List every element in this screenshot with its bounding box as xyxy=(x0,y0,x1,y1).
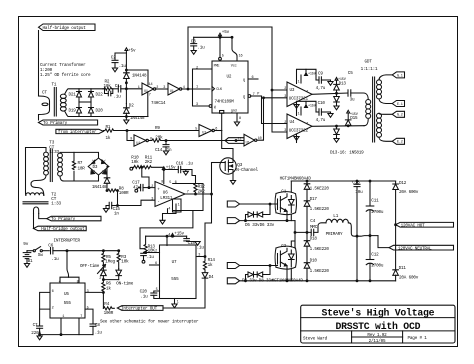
wire E1 to half-bridge midpoint xyxy=(240,220,295,222)
svg-text:CLK: CLK xyxy=(216,88,223,92)
plug E1 (input) xyxy=(227,218,239,224)
C7 220n xyxy=(39,309,41,326)
svg-text:2K2: 2K2 xyxy=(145,160,153,165)
svg-text:3u: 3u xyxy=(350,97,355,102)
gnd pin 8 xyxy=(236,113,238,121)
svg-text:G.2: G.2 xyxy=(397,114,403,118)
svg-text:3: 3 xyxy=(284,129,286,133)
svg-text:1:33: 1:33 xyxy=(49,150,59,155)
capacitor C9 4.7u xyxy=(316,79,319,81)
svg-text:U7: U7 xyxy=(172,260,177,265)
midpoint rail xyxy=(294,221,296,248)
+15v arrow xyxy=(171,234,174,237)
svg-text:GDT: GDT xyxy=(365,60,373,65)
svg-text:G1: G1 xyxy=(281,189,286,194)
zener D5 33v xyxy=(246,215,249,221)
diode D2 1N4148 xyxy=(125,89,127,104)
T3 core xyxy=(49,149,51,182)
wire clamp node to 74HC14 Vcc pin14 xyxy=(126,70,148,85)
inverter U1a 74HC14 xyxy=(142,83,154,95)
svg-text:C5: C5 xyxy=(348,71,353,76)
svg-text:5: 5 xyxy=(169,181,171,185)
svg-text:1: 1 xyxy=(298,113,300,117)
svg-text:+15V: +15V xyxy=(308,73,317,77)
svg-text:Sw: Sw xyxy=(38,253,43,258)
svg-text:100R: 100R xyxy=(119,191,129,196)
tank capacitor C4 MMC xyxy=(295,231,311,233)
svg-text:555: 555 xyxy=(171,277,179,282)
svg-text:3: 3 xyxy=(198,253,200,257)
inverter U1c (pins 5/6) xyxy=(199,125,212,137)
svg-text:1n: 1n xyxy=(114,212,119,217)
svg-text:UCC37322: UCC37322 xyxy=(289,129,309,134)
svg-text:8: 8 xyxy=(161,181,163,185)
svg-text:+5v: +5v xyxy=(222,30,230,35)
net label "120VAC NEUTRAL" xyxy=(389,245,454,250)
svg-text:4: 4 xyxy=(168,208,170,212)
svg-text:1: 1 xyxy=(138,86,140,90)
net label "Half-bridge output" (top) xyxy=(39,24,96,31)
gate driver U4 UCC37322 xyxy=(287,114,312,139)
svg-text:R9: R9 xyxy=(155,126,160,131)
switch SW xyxy=(27,250,33,252)
diode D14 to gnd xyxy=(334,97,340,103)
capacitor C15 1n xyxy=(108,202,110,208)
svg-text:6: 6 xyxy=(52,290,54,294)
diode D19 xyxy=(77,108,82,114)
capacitor C5 3u xyxy=(347,90,349,96)
resistor R2 xyxy=(103,87,113,90)
Q2 collector to midpoint xyxy=(291,241,295,248)
svg-text:C12: C12 xyxy=(371,253,379,258)
capacitor C14 1n xyxy=(165,141,167,145)
svg-text:D12: D12 xyxy=(399,181,407,186)
svg-text:3: 3 xyxy=(151,197,153,201)
wire winding B to plug E2 xyxy=(379,137,392,141)
svg-text:.1u: .1u xyxy=(197,46,205,51)
svg-text:LM311: LM311 xyxy=(160,196,173,201)
capacitor C3 xyxy=(193,37,195,43)
capacitor C6 .1u xyxy=(50,248,52,254)
resistor R9 20k xyxy=(148,139,162,142)
+15v arrow at divider xyxy=(162,167,165,170)
electrolytic C12 2700u xyxy=(369,236,371,260)
svg-text:5: 5 xyxy=(87,307,89,311)
balance loop box xyxy=(173,184,203,211)
wires to net labels xyxy=(39,214,47,219)
svg-text:1.5KE220: 1.5KE220 xyxy=(310,269,330,274)
svg-text:D7 33v D8 33v: D7 33v D8 33v xyxy=(242,279,274,284)
svg-text:P: P xyxy=(257,93,259,97)
TITLEBLOCK xyxy=(301,305,455,343)
svg-text:R1: R1 xyxy=(106,125,111,130)
diode right (up) xyxy=(116,270,122,276)
pin 6 stub xyxy=(150,264,160,266)
T3 right winding xyxy=(58,153,63,158)
svg-text:+15v: +15v xyxy=(174,232,184,237)
svg-text:C11: C11 xyxy=(371,199,379,204)
join wire xyxy=(103,279,118,281)
bottom rail pins 1,7 xyxy=(40,334,93,336)
wire G2 to Q2 gate xyxy=(240,265,278,267)
svg-text:C4: C4 xyxy=(310,219,315,224)
svg-text:D19: D19 xyxy=(69,109,77,114)
net label "To Primary" (upper) xyxy=(38,120,97,125)
bridge output wire down xyxy=(107,167,109,178)
plug G1 xyxy=(392,72,404,78)
svg-text:HGT1M4BN60A4D: HGT1M4BN60A4D xyxy=(280,176,312,181)
Kbar bubble xyxy=(209,105,212,108)
U3 output wire xyxy=(312,93,348,94)
svg-text:1n: 1n xyxy=(167,148,172,153)
U4 gnd pins xyxy=(296,134,298,143)
pin1 ground xyxy=(174,299,176,304)
gate driver U3 UCC37321 xyxy=(287,82,312,107)
svg-text:1k: 1k xyxy=(208,263,213,268)
svg-text:D17: D17 xyxy=(310,197,318,202)
svg-text:2: 2 xyxy=(156,86,158,90)
svg-text:C14: C14 xyxy=(155,148,163,153)
+15v rail over comparator xyxy=(164,169,192,171)
svg-text:+15V: +15V xyxy=(308,105,317,109)
svg-text:PRIMARY: PRIMARY xyxy=(326,232,343,237)
svg-text:4,7u: 4,7u xyxy=(316,118,326,123)
svg-text:.1u: .1u xyxy=(114,94,122,99)
pin3 output wire xyxy=(196,256,205,258)
svg-text:7: 7 xyxy=(306,123,308,127)
comparator U6 LM311 xyxy=(155,182,185,207)
resistor R1 1k xyxy=(103,129,115,132)
wire to pin2 xyxy=(146,252,160,254)
svg-text:U6: U6 xyxy=(163,191,168,196)
diode left (to pin) xyxy=(101,270,107,276)
svg-text:9: 9 xyxy=(130,138,132,142)
wire fork to enable lines xyxy=(225,138,244,144)
svg-text:3: 3 xyxy=(87,290,89,294)
diode D22 xyxy=(89,92,94,98)
wires U2 outputs to driver inputs xyxy=(262,96,288,124)
svg-text:6: 6 xyxy=(175,181,177,185)
svg-text:U1: U1 xyxy=(202,132,206,136)
svg-text:D22: D22 xyxy=(96,93,104,98)
svg-text:D15: D15 xyxy=(350,116,358,121)
svg-text:2: 2 xyxy=(196,66,198,70)
svg-text:3: 3 xyxy=(284,95,286,99)
svg-text:HGT1M4BN60A4D: HGT1M4BN60A4D xyxy=(272,279,304,284)
burden resistor R7 xyxy=(72,152,75,181)
RC loop under R2 xyxy=(105,89,113,94)
plug G2 xyxy=(392,111,404,117)
svg-text:.1u: .1u xyxy=(140,295,148,300)
svg-text:2K2: 2K2 xyxy=(198,190,206,195)
svg-text:To Primary: To Primary xyxy=(51,217,76,222)
svg-text:6: 6 xyxy=(252,76,254,80)
svg-text:C2: C2 xyxy=(111,56,116,61)
wire inv1 to inv2 xyxy=(156,88,168,90)
pin5 / C8 .1u xyxy=(85,309,93,324)
pins 1/4 ground path xyxy=(163,204,177,220)
branch to lower inverter chain xyxy=(127,131,134,141)
rectifier D12 20A 600v xyxy=(393,184,399,190)
wire to D4 column xyxy=(163,279,205,308)
svg-text:7: 7 xyxy=(187,190,189,194)
wire G1 to Q1 gate xyxy=(240,203,278,205)
svg-text:2: 2 xyxy=(284,121,286,125)
svg-text:C3: C3 xyxy=(191,40,196,45)
svg-text:D13: D13 xyxy=(339,81,347,86)
svg-text:C6: C6 xyxy=(48,243,53,248)
svg-text:D18: D18 xyxy=(310,237,318,242)
net label "Interrupter OUT" xyxy=(117,306,163,311)
U4 output wire xyxy=(312,125,364,128)
svg-text:ON-time: ON-time xyxy=(116,282,133,287)
svg-text:+5v: +5v xyxy=(128,49,136,54)
svg-text:D10: D10 xyxy=(310,259,318,264)
zener D7 33v xyxy=(246,275,249,281)
node down to filter xyxy=(117,191,119,206)
+15V arrow / diode D13 xyxy=(335,78,338,81)
resistor R3 10k xyxy=(117,251,120,269)
svg-text:T1: T1 xyxy=(52,83,57,88)
inverter U1d (pins 9/8) xyxy=(134,135,146,146)
svg-text:1: 1 xyxy=(196,85,198,89)
svg-text:D2: D2 xyxy=(129,104,134,109)
svg-text:2700u: 2700u xyxy=(371,263,384,268)
net label "from interrupter" xyxy=(56,129,104,133)
wire to R4 xyxy=(102,292,104,308)
svg-text:PRE: PRE xyxy=(214,65,220,69)
svg-text:2: 2 xyxy=(284,87,286,91)
svg-text:INTERRUPTER: INTERRUPTER xyxy=(54,238,81,243)
svg-text:6: 6 xyxy=(155,262,157,266)
flip-flop U2 74HC109 xyxy=(212,61,248,113)
svg-text:74HC14: 74HC14 xyxy=(151,101,166,106)
svg-text:Half-bridge output: Half-bridge output xyxy=(43,26,87,31)
plug G1 (input) xyxy=(227,201,239,207)
output wire pin 7 to OCD rail xyxy=(185,193,212,195)
resistor R4 100R xyxy=(103,307,114,310)
T1 secondary winding xyxy=(60,94,66,98)
svg-text:1Meg: 1Meg xyxy=(105,259,115,264)
+5v rail arrow xyxy=(219,33,222,36)
TVS diode D10 xyxy=(304,263,310,269)
svg-text:C16 .1u: C16 .1u xyxy=(176,161,193,166)
clk input wires from inverter xyxy=(193,69,213,89)
svg-text:6: 6 xyxy=(215,128,217,132)
one-shot timer U7 555 xyxy=(160,245,197,299)
svg-text:10k: 10k xyxy=(131,160,139,165)
wire from label down to T1 primary xyxy=(38,31,40,97)
net label "Half-bridge output" (lower) xyxy=(34,226,87,231)
zener D6 33v xyxy=(257,212,263,217)
Q3 gate wire from OCD rail xyxy=(212,162,226,164)
svg-text:.1u: .1u xyxy=(119,64,127,69)
capacitor C10 4.7u xyxy=(316,111,319,113)
net label "To Primary" (lower) xyxy=(47,216,101,221)
svg-text:1.5KE220: 1.5KE220 xyxy=(310,207,330,212)
svg-text:To Primary: To Primary xyxy=(43,121,68,126)
svg-text:9v: 9v xyxy=(23,242,28,247)
pin 4 wire xyxy=(166,236,168,245)
svg-text:10k: 10k xyxy=(121,259,129,264)
wire winding B to plug G2 xyxy=(379,113,392,114)
svg-text:U2: U2 xyxy=(227,75,232,80)
T3 wrap wire to T2 primary (left loop) xyxy=(26,148,47,196)
T3 secondary bottom rail xyxy=(60,176,99,181)
resistor R5 1Meg xyxy=(102,251,105,269)
svg-text:20k: 20k xyxy=(155,136,163,141)
diode D1 1N4148 xyxy=(124,73,130,79)
svg-text:D13-16: 1N5819: D13-16: 1N5819 xyxy=(330,151,364,156)
wire +5v down to clamp node xyxy=(125,53,127,73)
svg-text:.1u: .1u xyxy=(147,255,155,260)
svg-text:U4: U4 xyxy=(290,120,295,125)
output pullup jog to R12 xyxy=(192,170,196,181)
wire Vcc pin 16 xyxy=(232,37,237,61)
svg-text:1: 1 xyxy=(177,301,179,305)
svg-text:C1: C1 xyxy=(115,84,120,89)
svg-text:7: 7 xyxy=(253,93,255,97)
svg-text:2: 2 xyxy=(99,277,101,281)
svg-text:1.25" OD ferrite core: 1.25" OD ferrite core xyxy=(40,73,91,78)
svg-text:MMC: MMC xyxy=(310,225,318,230)
svg-text:74HC109M: 74HC109M xyxy=(215,99,235,104)
wire gate out to U2 pin4 / Q3 drain xyxy=(214,130,221,132)
diode D20 xyxy=(89,108,94,114)
transformer T1 primary (one-turn bulge) xyxy=(39,96,50,120)
svg-text:C13: C13 xyxy=(352,180,360,185)
resistor R10 10k xyxy=(133,166,143,169)
svg-text:Q̄: Q̄ xyxy=(243,95,245,100)
svg-text:100R: 100R xyxy=(104,311,114,316)
svg-text:U1: U1 xyxy=(170,90,174,94)
svg-text:1N4148: 1N4148 xyxy=(132,74,147,79)
svg-text:C18: C18 xyxy=(188,241,196,246)
feedback loop wire (up and over to drivers) xyxy=(188,27,272,90)
svg-text:1N4148: 1N4148 xyxy=(92,185,107,190)
+15V arrow U4 xyxy=(305,105,308,108)
svg-text:C9: C9 xyxy=(318,72,323,77)
svg-text:1:33: 1:33 xyxy=(51,202,61,207)
TVS diode D17 xyxy=(304,201,310,207)
wire PRE pin 5 xyxy=(219,37,221,57)
comparator supply pin 8 xyxy=(163,170,165,184)
svg-text:G2: G2 xyxy=(281,244,286,249)
svg-text:8: 8 xyxy=(239,117,241,121)
pin 5/6 inner loop xyxy=(173,199,182,212)
svg-text:5: 5 xyxy=(156,288,158,292)
svg-text:4: 4 xyxy=(59,280,61,284)
svg-text:.1u: .1u xyxy=(51,257,59,262)
svg-text:+15v: +15v xyxy=(166,166,176,171)
svg-text:K̄: K̄ xyxy=(214,105,217,110)
plug E2 (input) xyxy=(227,278,239,284)
+15V arrow U3 xyxy=(305,73,308,76)
svg-text:1: 1 xyxy=(178,203,180,207)
svg-text:2: 2 xyxy=(155,249,157,253)
svg-text:7: 7 xyxy=(306,91,308,95)
svg-text:3: 3 xyxy=(196,103,198,107)
svg-text:14: 14 xyxy=(149,83,153,87)
rectifier D11 20A 600v xyxy=(393,270,399,276)
svg-text:D3: D3 xyxy=(93,165,98,170)
svg-text:20A 600v: 20A 600v xyxy=(399,190,419,195)
svg-text:2700u: 2700u xyxy=(371,210,384,215)
outer feedback loop around comparator xyxy=(140,211,193,249)
resistor R14 1k xyxy=(203,257,206,271)
T2 core xyxy=(23,201,48,203)
GDT core xyxy=(372,77,374,142)
pot arrow OFF-time xyxy=(98,265,106,274)
svg-text:120VAC HOT: 120VAC HOT xyxy=(401,223,426,228)
svg-text:U5: U5 xyxy=(64,292,69,297)
pin4 marker at bottom xyxy=(220,111,224,114)
svg-text:+: + xyxy=(157,187,160,192)
battery B1 9v xyxy=(23,252,31,254)
svg-text:.1u: .1u xyxy=(95,331,103,336)
L1 return to bus midpoint xyxy=(348,223,378,236)
svg-text:3: 3 xyxy=(163,86,165,90)
diode D4 xyxy=(202,273,208,279)
svg-text:120VAC NEUTRAL: 120VAC NEUTRAL xyxy=(398,247,432,252)
resistor R8 100R xyxy=(107,189,117,192)
svg-text:D11: D11 xyxy=(399,266,407,271)
drop to U5 supply pins xyxy=(67,251,69,278)
svg-text:D5 33v: D5 33v xyxy=(245,223,260,228)
capacitor C16 .1u xyxy=(177,166,179,172)
svg-text:7: 7 xyxy=(80,315,82,319)
wire T1 sec top to signal rail xyxy=(65,89,104,95)
OCD rail down to U7 trigger xyxy=(205,163,212,257)
resistor R6 1k xyxy=(102,280,105,292)
svg-text:Vcc: Vcc xyxy=(231,65,237,69)
svg-text:Steve Ward: Steve Ward xyxy=(303,337,328,342)
svg-text:1: 1 xyxy=(298,81,300,85)
svg-text:D21: D21 xyxy=(69,93,77,98)
pin3 output wire xyxy=(85,291,103,293)
svg-text:4: 4 xyxy=(168,233,170,237)
T3 secondary top rail xyxy=(60,152,99,158)
svg-text:Half-bridge output: Half-bridge output xyxy=(41,227,85,232)
wire inv out up to driver enables xyxy=(257,98,264,140)
transformer T3 left winding xyxy=(44,152,49,157)
wire winding A to plug E1 xyxy=(379,99,392,104)
svg-text:7: 7 xyxy=(149,94,151,98)
svg-text:gnd: gnd xyxy=(231,109,237,114)
transformer T2 primary winding xyxy=(26,193,44,196)
inverter U1b 74HC14 xyxy=(168,83,180,95)
bridge rectifier D3 xyxy=(88,158,109,175)
GDT secondary winding A xyxy=(377,80,382,85)
Q1 emitter to midpoint xyxy=(287,214,291,221)
ground xyxy=(112,68,117,72)
svg-text:UCC37321: UCC37321 xyxy=(289,97,309,102)
svg-text:Steve's High Voltage: Steve's High Voltage xyxy=(322,307,435,318)
GDT secondary winding B xyxy=(377,113,382,118)
svg-text:N-Channel: N-Channel xyxy=(236,168,258,173)
svg-text:U3: U3 xyxy=(290,88,295,93)
GDT primary winding xyxy=(366,100,371,105)
+5v rail xyxy=(194,36,232,38)
svg-text:1N4148: 1N4148 xyxy=(130,116,145,121)
+15V arrow / diode D15 xyxy=(347,110,350,113)
svg-text:1k: 1k xyxy=(106,136,111,141)
svg-text:E.1: E.1 xyxy=(397,103,403,107)
IGBT Q2 xyxy=(277,254,279,265)
Qbar output pin 7 xyxy=(248,95,251,98)
bus capacitor C13 10u xyxy=(356,181,358,184)
svg-text:47u: 47u xyxy=(133,186,141,191)
